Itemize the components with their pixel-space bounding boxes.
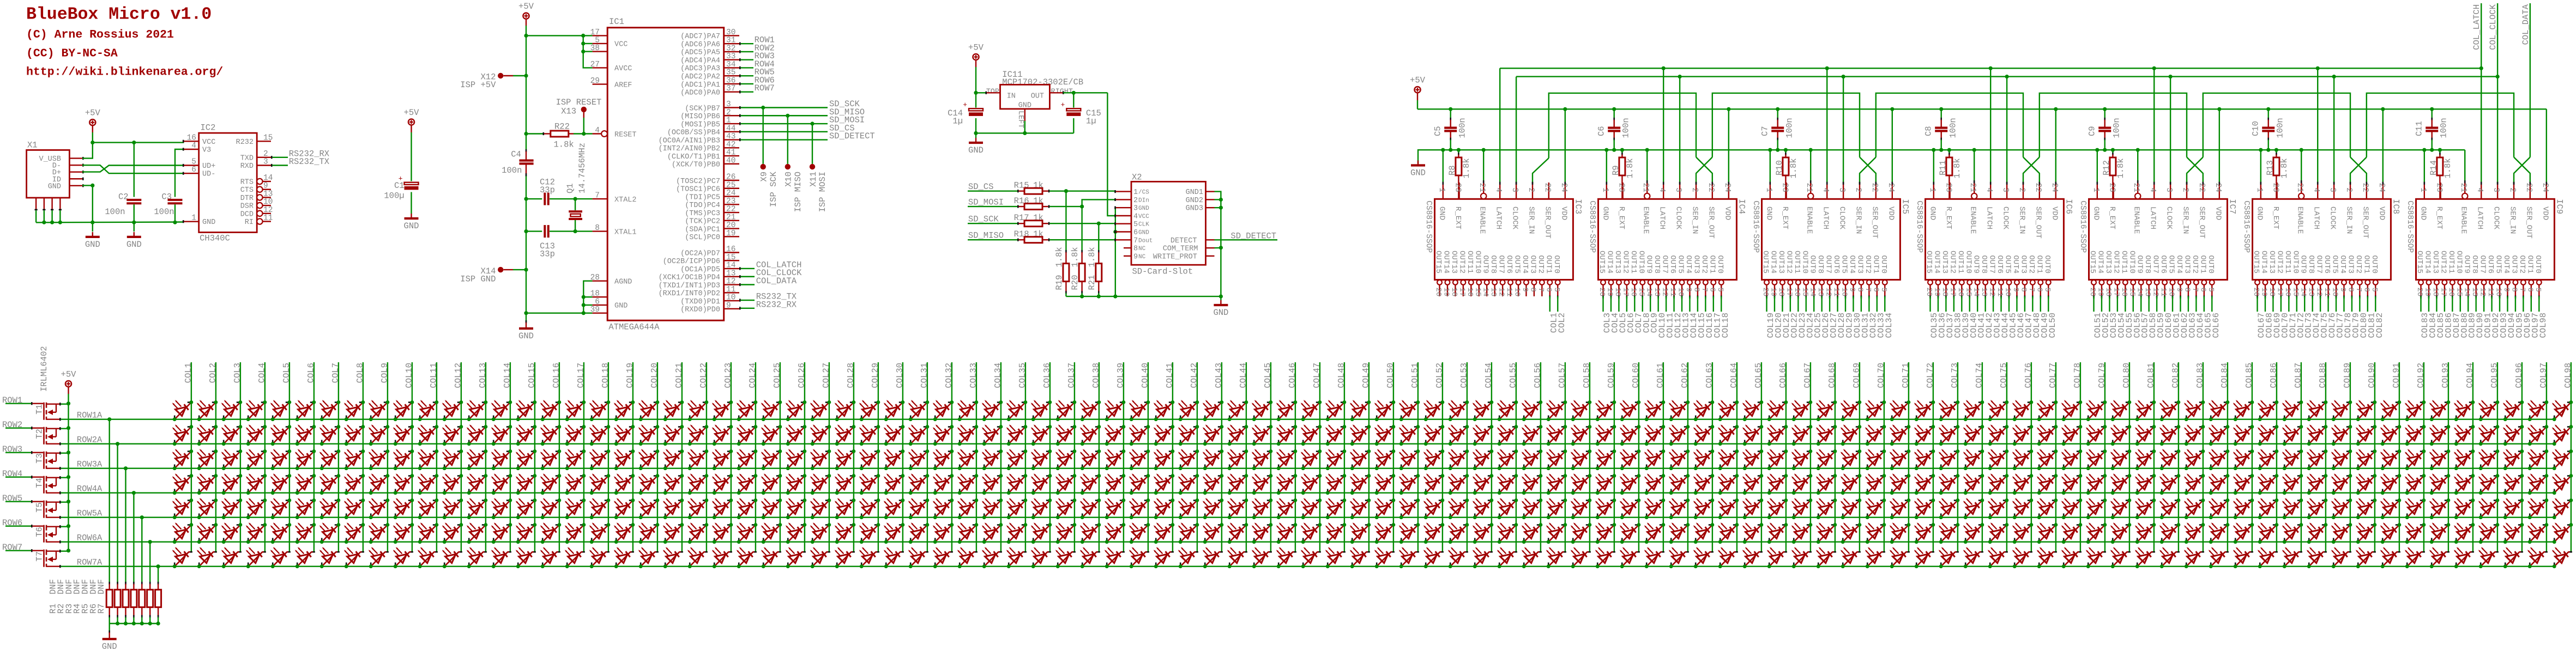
svg-text:OUT8: OUT8 <box>1652 255 1661 273</box>
LED COL34/ROW7 <box>982 547 1002 568</box>
LED COL84/ROW3 <box>2209 449 2230 470</box>
svg-text:OUT3: OUT3 <box>2019 255 2028 273</box>
LED COL74/ROW1 <box>1963 400 1984 421</box>
LED COL17/ROW2 <box>565 424 586 446</box>
wire net COL35 (driver) <box>1929 296 1939 338</box>
LED COL66/ROW7 <box>1767 547 1787 568</box>
LED COL16/ROW4 <box>540 473 562 495</box>
LED COL13/ROW7 <box>467 547 487 568</box>
capacitor C14 1u <box>948 93 983 133</box>
svg-text:OUT10: OUT10 <box>2127 251 2136 273</box>
svg-text:11: 11 <box>1505 288 1513 297</box>
svg-text:21: 21 <box>2295 183 2304 192</box>
LED COL41/ROW3 <box>1154 449 1175 470</box>
svg-text:VDD: VDD <box>2050 206 2059 220</box>
svg-text:CLOCK: CLOCK <box>1511 206 1519 230</box>
svg-text:COL92: COL92 <box>2416 363 2426 388</box>
LED COL55/ROW2 <box>1497 424 1518 446</box>
LED COL28/ROW6 <box>835 522 856 544</box>
LED COL55/ROW5 <box>1497 498 1518 519</box>
LED COL45/ROW5 <box>1252 498 1273 519</box>
LED COL53/ROW7 <box>1448 547 1468 568</box>
svg-text:20: 20 <box>1434 288 1443 297</box>
svg-text:ROW7: ROW7 <box>755 83 775 93</box>
wire VCC feed <box>526 34 593 68</box>
svg-text:OUT2: OUT2 <box>1863 255 1872 273</box>
svg-text:24: 24 <box>1886 183 1895 192</box>
LED COL84/ROW4 <box>2209 473 2230 495</box>
LED COL32/ROW6 <box>933 522 954 544</box>
svg-text:(ADC6)PA6: (ADC6)PA6 <box>680 41 720 49</box>
resistor R10 1.8k <box>1775 150 1799 199</box>
svg-text:3: 3 <box>1674 187 1682 192</box>
svg-text:IC7: IC7 <box>2227 199 2237 214</box>
LED COL35/ROW5 <box>1006 498 1028 519</box>
LED COL7/ROW2 <box>319 424 341 446</box>
wire row bus ROW3A (matrix) <box>174 468 2554 469</box>
wire net COL93 (driver) <box>2499 296 2509 338</box>
LED COL77/ROW5 <box>2037 498 2058 519</box>
wire net ROW1 <box>2 396 43 405</box>
svg-text:13: 13 <box>1980 288 1988 297</box>
svg-text:(INT2/AIN0)PB2: (INT2/AIN0)PB2 <box>659 145 720 153</box>
svg-text:C7: C7 <box>1760 126 1770 136</box>
svg-text:5: 5 <box>595 36 600 45</box>
ground symbol (row resistors) <box>102 624 117 651</box>
svg-text:RS232_RX: RS232_RX <box>756 300 797 309</box>
svg-text:COL20: COL20 <box>649 363 659 388</box>
svg-text:ISP SCK: ISP SCK <box>769 171 779 207</box>
LED COL14/ROW7 <box>491 547 511 568</box>
svg-text:COL49: COL49 <box>1361 363 1371 388</box>
svg-text:16: 16 <box>726 245 735 254</box>
svg-text:12: 12 <box>1988 288 1996 297</box>
wire IC9 CLOCK pin <box>2497 77 2499 185</box>
svg-text:2: 2 <box>1690 187 1699 192</box>
svg-text:ISP +5V: ISP +5V <box>460 80 496 90</box>
wire net COL46 (driver) <box>2016 296 2026 338</box>
LED COL31/ROW6 <box>908 522 930 544</box>
svg-text:19: 19 <box>1769 288 1777 297</box>
svg-text:6: 6 <box>1133 229 1138 237</box>
LED COL58/ROW7 <box>1571 547 1591 568</box>
wire net COL75 (matrix column) <box>1999 362 2008 552</box>
svg-text:COL_CLOCK: COL_CLOCK <box>2488 4 2498 50</box>
svg-text:OUT12: OUT12 <box>2112 251 2120 273</box>
LED COL87/ROW3 <box>2282 449 2303 470</box>
LED COL59/ROW7 <box>1595 547 1615 568</box>
LED COL5/ROW6 <box>270 522 291 544</box>
LED COL65/ROW6 <box>1742 522 1764 544</box>
wire net COL5 (driver) <box>1618 296 1628 333</box>
LED COL96/ROW7 <box>2503 547 2523 568</box>
svg-text:OUT2: OUT2 <box>2354 255 2363 273</box>
svg-text:11: 11 <box>1832 288 1841 297</box>
driver IC5 CS8816-SSOP <box>1751 182 1910 296</box>
wire net COL92 (driver) <box>2491 296 2501 338</box>
LED COL4/ROW2 <box>246 424 267 446</box>
LED COL64/ROW5 <box>1718 498 1739 519</box>
wire net COL9 (driver) <box>1650 296 1660 333</box>
svg-text:17: 17 <box>1948 288 1957 297</box>
LED COL74/ROW7 <box>1963 547 1983 568</box>
svg-text:OUT13: OUT13 <box>2431 251 2440 273</box>
LED COL46/ROW2 <box>1276 424 1298 446</box>
LED COL26/ROW1 <box>786 400 807 421</box>
solder pad X11 ISP MOSI <box>809 121 828 212</box>
svg-text:5: 5 <box>1879 288 1888 292</box>
svg-text:OUT15: OUT15 <box>1925 251 1933 273</box>
LED COL98/ROW2 <box>2552 424 2573 446</box>
wire IC9 VDD pin <box>2546 109 2548 185</box>
driver IC4 CS8816-SSOP <box>1588 182 1746 296</box>
svg-text:WRITE_PROT: WRITE_PROT <box>1153 253 1197 261</box>
svg-text:(TMS)PC3: (TMS)PC3 <box>685 210 720 218</box>
LED COL67/ROW5 <box>1791 498 1813 519</box>
wire net ROW3 <box>739 51 775 61</box>
LED COL88/ROW1 <box>2307 400 2328 421</box>
LED COL62/ROW4 <box>1669 473 1690 495</box>
LED COL95/ROW7 <box>2478 547 2499 568</box>
wire net COL52 (driver) <box>2101 296 2110 338</box>
LED COL48/ROW7 <box>1325 547 1346 568</box>
svg-text:6: 6 <box>1544 288 1553 292</box>
LED COL81/ROW2 <box>2135 424 2156 446</box>
svg-text:22: 22 <box>726 205 735 214</box>
svg-text:COL13: COL13 <box>478 363 487 388</box>
LED COL33/ROW1 <box>957 400 979 421</box>
svg-text:ENABLE: ENABLE <box>1478 206 1487 234</box>
LED COL61/ROW6 <box>1644 522 1666 544</box>
LED COL55/ROW4 <box>1497 473 1518 495</box>
ground symbol (MCU) <box>518 320 534 341</box>
LED COL97/ROW7 <box>2527 547 2548 568</box>
svg-text:OUT6: OUT6 <box>1505 255 1513 273</box>
svg-text:22: 22 <box>1543 183 1552 192</box>
svg-text:100n: 100n <box>502 166 522 175</box>
svg-text:5: 5 <box>1716 288 1724 292</box>
LED COL80/ROW6 <box>2110 522 2132 544</box>
wire net ROW4 <box>2 469 43 479</box>
LED COL17/ROW4 <box>565 473 586 495</box>
wire net COL31 (driver) <box>1860 296 1870 338</box>
LED COL3/ROW7 <box>221 547 242 568</box>
svg-text:T3: T3 <box>35 453 45 464</box>
wire net COL39 (driver) <box>1961 296 1971 338</box>
svg-text:18: 18 <box>1450 288 1458 297</box>
svg-text:22: 22 <box>2524 183 2533 192</box>
svg-text:OUT14: OUT14 <box>1605 251 1614 273</box>
svg-text:19: 19 <box>1932 288 1941 297</box>
LED COL70/ROW3 <box>1865 449 1886 470</box>
svg-text:SD_DETECT: SD_DETECT <box>829 131 875 141</box>
svg-text:IRLML6402: IRLML6402 <box>39 346 49 392</box>
LED COL47/ROW5 <box>1301 498 1322 519</box>
LED COL93/ROW4 <box>2429 473 2451 495</box>
transistor T2 IRLML6402 <box>35 427 69 445</box>
svg-text:1µ: 1µ <box>1086 117 1096 126</box>
svg-text:OUT4: OUT4 <box>2175 255 2183 273</box>
wire IC9 GND pin <box>2424 150 2426 185</box>
svg-text:COL19: COL19 <box>625 363 635 388</box>
LED COL20/ROW4 <box>638 473 660 495</box>
LED COL97/ROW2 <box>2527 424 2549 446</box>
LED COL94/ROW1 <box>2454 400 2475 421</box>
svg-text:R7: R7 <box>96 604 106 614</box>
wire net COL28 (driver) <box>1837 296 1847 338</box>
svg-text:15: 15 <box>263 133 273 142</box>
LED COL63/ROW4 <box>1693 473 1715 495</box>
wire net COL81 (matrix column) <box>2146 362 2156 552</box>
svg-text:ISP MISO: ISP MISO <box>793 172 803 212</box>
svg-text:GND: GND <box>404 221 419 231</box>
LED COL12/ROW3 <box>442 449 463 470</box>
LED COL43/ROW1 <box>1203 400 1224 421</box>
svg-text:7: 7 <box>2027 288 2036 292</box>
LED COL56/ROW5 <box>1522 498 1543 519</box>
wire net COL32 (driver) <box>1868 296 1878 338</box>
svg-text:COL94: COL94 <box>2465 363 2475 388</box>
svg-text:C5: C5 <box>1433 126 1443 136</box>
LED COL72/ROW6 <box>1914 522 1935 544</box>
LED COL69/ROW3 <box>1841 449 1862 470</box>
wire net COL5 (matrix column) <box>281 362 291 552</box>
regulator ground wire <box>974 121 1073 135</box>
LED COL64/ROW1 <box>1718 400 1739 421</box>
driver IC9 CS8816-SSOP <box>2405 182 2564 296</box>
LED COL94/ROW6 <box>2454 522 2475 544</box>
LED COL85/ROW3 <box>2233 449 2254 470</box>
svg-text:27: 27 <box>590 60 600 69</box>
LED COL81/ROW5 <box>2135 498 2156 519</box>
row resistor ground bus <box>110 622 160 625</box>
svg-text:6: 6 <box>2198 288 2207 292</box>
wire net COL88 (driver) <box>2459 296 2469 338</box>
LED COL40/ROW4 <box>1129 473 1150 495</box>
LED COL5/ROW1 <box>270 400 291 421</box>
resistor R18 1k <box>1014 229 1050 243</box>
svg-text:16: 16 <box>2120 288 2128 297</box>
wire serial link IC7-IC8 <box>2203 93 2350 157</box>
wire net SD_SCK (MCU) <box>739 99 860 109</box>
svg-text:8: 8 <box>1528 288 1537 292</box>
svg-text:16: 16 <box>1629 288 1638 297</box>
LED COL62/ROW2 <box>1669 424 1690 446</box>
svg-text:13: 13 <box>1489 288 1498 297</box>
ground symbol (SD) <box>1213 296 1228 318</box>
wire net COL25 (matrix column) <box>772 362 782 552</box>
LED COL20/ROW6 <box>638 522 660 544</box>
svg-text:OUT13: OUT13 <box>1450 251 1458 273</box>
LED COL1/ROW5 <box>172 498 194 519</box>
LED COL82/ROW2 <box>2159 424 2181 446</box>
svg-text:OUT5: OUT5 <box>2004 255 2012 273</box>
svg-text:16: 16 <box>187 133 196 142</box>
LED COL54/ROW4 <box>1473 473 1494 495</box>
LED COL85/ROW6 <box>2233 522 2254 544</box>
svg-text:T5: T5 <box>35 502 45 513</box>
LED COL68/ROW3 <box>1816 449 1837 470</box>
LED COL22/ROW7 <box>687 547 708 568</box>
LED COL65/ROW3 <box>1742 449 1764 470</box>
svg-text:OUT1: OUT1 <box>2035 255 2043 273</box>
LED COL1/ROW6 <box>172 522 194 544</box>
svg-text:OUT8: OUT8 <box>2470 255 2479 273</box>
svg-text:100n: 100n <box>1458 118 1468 138</box>
svg-text:1: 1 <box>2255 187 2264 192</box>
LED COL1/ROW3 <box>172 449 194 470</box>
svg-text:COL18: COL18 <box>1721 313 1730 338</box>
svg-text:VCC: VCC <box>614 41 628 49</box>
LED COL6/ROW5 <box>295 498 316 519</box>
wire V_USB to +5V rail <box>82 143 93 159</box>
svg-text:9: 9 <box>1848 288 1856 292</box>
wire net COL1 (matrix column) <box>183 362 193 552</box>
LED COL24/ROW7 <box>737 547 757 568</box>
svg-text:COL74: COL74 <box>1974 363 1984 388</box>
wire IC4 serial crossover <box>1696 157 1713 185</box>
wire net COL12 (driver) <box>1673 296 1683 338</box>
wire net COL27 (matrix column) <box>821 362 831 552</box>
svg-text:24: 24 <box>2213 183 2222 192</box>
LED COL46/ROW1 <box>1276 400 1298 421</box>
wire net COL_CLOCK (MCU) <box>739 268 802 278</box>
LED COL82/ROW4 <box>2159 473 2181 495</box>
svg-text:C6: C6 <box>1597 126 1607 136</box>
svg-text:TXD: TXD <box>240 154 254 162</box>
svg-text:COL89: COL89 <box>2342 363 2352 388</box>
svg-text:(SCL)PC0: (SCL)PC0 <box>685 234 720 242</box>
transistor T3 IRLML6402 <box>35 452 69 469</box>
LED COL3/ROW1 <box>221 400 243 421</box>
wire net COL37 (driver) <box>1945 296 1955 338</box>
LED COL21/ROW2 <box>663 424 684 446</box>
LED COL89/ROW1 <box>2331 400 2352 421</box>
LED COL61/ROW1 <box>1644 400 1666 421</box>
svg-text:OUT11: OUT11 <box>2447 251 2456 273</box>
svg-text:R232: R232 <box>236 138 254 147</box>
resistor R9 1.8k <box>1611 150 1635 199</box>
svg-text:6: 6 <box>1708 288 1716 292</box>
resistor R20 1.8k <box>1070 206 1085 296</box>
LED COL42/ROW7 <box>1178 547 1198 568</box>
LED COL36/ROW2 <box>1031 424 1052 446</box>
svg-text:(OC0B/SS)PB4: (OC0B/SS)PB4 <box>667 129 720 137</box>
svg-text:2: 2 <box>1527 187 1535 192</box>
svg-text:X13: X13 <box>561 107 576 117</box>
capacitor C11 100n <box>2415 109 2449 150</box>
svg-text:2: 2 <box>263 150 268 159</box>
LED COL98/ROW1 <box>2552 400 2573 421</box>
transistor T7 IRLML6402 <box>35 550 69 567</box>
svg-text:COL71: COL71 <box>1901 363 1910 388</box>
svg-text:CTS: CTS <box>240 186 254 194</box>
svg-text:VDD: VDD <box>2541 206 2549 220</box>
LED COL69/ROW1 <box>1841 400 1862 421</box>
svg-text:OUT12: OUT12 <box>2439 251 2447 273</box>
resistor R19 1.8k <box>1054 191 1069 296</box>
svg-text:COL9: COL9 <box>379 363 389 383</box>
wire net COL40 (driver) <box>1969 296 1978 338</box>
svg-text:GND: GND <box>1213 308 1228 318</box>
svg-text:OUT1: OUT1 <box>2525 255 2534 273</box>
LED COL19/ROW1 <box>614 400 635 421</box>
LED COL27/ROW3 <box>810 449 831 470</box>
LED COL76/ROW3 <box>2012 449 2034 470</box>
LED COL4/ROW3 <box>246 449 267 470</box>
svg-text:39: 39 <box>590 306 600 314</box>
wire net COL95 (driver) <box>2514 296 2524 338</box>
svg-text:21: 21 <box>1968 183 1977 192</box>
wire net COL37 (matrix column) <box>1066 362 1076 552</box>
svg-text:9: 9 <box>1521 288 1529 292</box>
LED COL45/ROW3 <box>1252 449 1273 470</box>
LED COL28/ROW1 <box>835 400 856 421</box>
LED COL64/ROW3 <box>1718 449 1739 470</box>
wire net COL66 (driver) <box>2211 296 2221 338</box>
LED COL9/ROW6 <box>369 522 390 544</box>
LED COL73/ROW5 <box>1939 498 1960 519</box>
wire IC8 GND pin <box>2260 150 2262 185</box>
svg-text:COL30: COL30 <box>895 363 904 388</box>
wire +5V to IN <box>974 91 987 95</box>
LED COL59/ROW4 <box>1595 473 1616 495</box>
wire net SD_MOSI (MCU) <box>739 115 865 125</box>
LED COL74/ROW3 <box>1963 449 1984 470</box>
svg-text:33p: 33p <box>540 250 555 259</box>
LED COL15/ROW1 <box>516 400 537 421</box>
LED COL19/ROW4 <box>614 473 635 495</box>
wire net COL86 (driver) <box>2444 296 2453 338</box>
wire net COL90 (driver) <box>2475 296 2485 338</box>
LED COL17/ROW6 <box>565 522 586 544</box>
svg-text:COL66: COL66 <box>2211 313 2221 338</box>
wire net COL97 (driver) <box>2530 296 2540 338</box>
svg-text:5: 5 <box>2043 288 2052 292</box>
wire net COL67 (matrix column) <box>1802 362 1812 552</box>
LED COL54/ROW3 <box>1473 449 1494 470</box>
svg-text:RXD: RXD <box>240 162 254 171</box>
LED COL61/ROW5 <box>1644 498 1666 519</box>
LED COL60/ROW7 <box>1620 547 1640 568</box>
svg-text:24: 24 <box>2541 183 2549 192</box>
wire net COL72 (driver) <box>2296 296 2306 338</box>
svg-text:100µ: 100µ <box>384 191 404 201</box>
svg-text:LATCH: LATCH <box>1658 206 1667 229</box>
svg-text:OUT10: OUT10 <box>1637 251 1645 273</box>
svg-text:RIGHT: RIGHT <box>1051 88 1073 96</box>
svg-text:(XCK/T0)PB0: (XCK/T0)PB0 <box>672 161 720 169</box>
LED COL50/ROW5 <box>1374 498 1396 519</box>
svg-text:7: 7 <box>2191 288 2199 292</box>
wire net COL34 (driver) <box>1884 296 1894 338</box>
svg-text:X10: X10 <box>784 172 794 187</box>
LED COL69/ROW4 <box>1841 473 1862 495</box>
wire net COL44 (driver) <box>2000 296 2010 338</box>
wire net COL54 (driver) <box>2116 296 2126 338</box>
LED COL56/ROW6 <box>1522 522 1543 544</box>
wire net COL19 (driver) <box>1766 296 1776 338</box>
LED COL77/ROW2 <box>2037 424 2058 446</box>
svg-text:22: 22 <box>2197 183 2206 192</box>
wire net COL30 (driver) <box>1853 296 1862 338</box>
svg-text:IC6: IC6 <box>2064 199 2073 214</box>
svg-text:OUT15: OUT15 <box>1434 251 1443 273</box>
svg-text:COM_TERM: COM_TERM <box>1163 245 1198 253</box>
svg-text:24: 24 <box>2050 183 2059 192</box>
svg-text:COL65: COL65 <box>1753 363 1763 388</box>
wire net COL39 (matrix column) <box>1115 362 1125 552</box>
